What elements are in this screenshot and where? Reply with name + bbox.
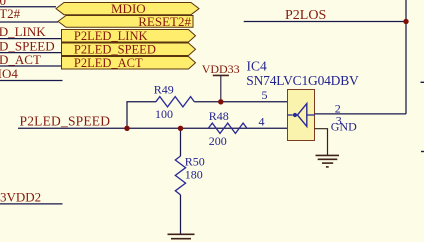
- svg-text:R49: R49: [154, 83, 174, 97]
- svg-text:4: 4: [259, 115, 265, 129]
- svg-text:P2LOS: P2LOS: [285, 8, 326, 23]
- svg-text:P2LED_ACT: P2LED_ACT: [0, 52, 41, 67]
- wire row2 to RESET2# port: [0, 21, 58, 23]
- wire P2LOS horizontal: [244, 21, 406, 23]
- svg-text:P2LED_SPEED: P2LED_SPEED: [20, 114, 111, 129]
- inverter bubble: [293, 113, 297, 117]
- wire row3 to P2LED LINK port: [0, 38, 62, 40]
- inverter input stub: [287, 114, 292, 116]
- wire row6 (bare stub): [0, 80, 63, 82]
- op-amp / inverter IC4 body: [288, 90, 315, 141]
- wire row1 to MDIO port: [0, 6, 56, 8]
- wire vertical corner x=127: [126, 102, 128, 129]
- inverter output stub: [307, 114, 315, 116]
- svg-text:33VDD2: 33VDD2: [0, 189, 41, 204]
- svg-text:180: 180: [185, 168, 203, 182]
- svg-text:100: 100: [155, 107, 173, 121]
- junction corner x=127: [124, 126, 129, 131]
- svg-text:R50: R50: [185, 155, 205, 169]
- wire lower horizontal (P2LED SPEED net): [18, 127, 287, 129]
- svg-text:P2LED_ACT: P2LED_ACT: [74, 56, 143, 70]
- svg-text:IC4: IC4: [247, 59, 268, 74]
- junction VDD33/pin5 net: [218, 99, 223, 104]
- resistor R48: [208, 123, 247, 133]
- svg-text:200: 200: [209, 134, 227, 148]
- port MDIO: [56, 3, 199, 15]
- svg-text:VDD33: VDD33: [202, 62, 240, 76]
- svg-text:RESET2#: RESET2#: [138, 14, 191, 29]
- port P2LED_ACT: [62, 57, 196, 70]
- wire 33VDD2 stub: [0, 203, 63, 205]
- wire stub right edge upper: [421, 81, 424, 83]
- svg-text:RESET2#: RESET2#: [0, 6, 21, 21]
- ground symbol at IC: [316, 155, 340, 167]
- wire P2LOS vertical: [405, 0, 407, 114]
- wire row5 to P2LED ACT port: [0, 65, 62, 67]
- svg-text:5: 5: [262, 88, 268, 102]
- svg-text:R48: R48: [209, 109, 229, 123]
- junction P2LOS: [403, 19, 408, 24]
- wire pin3 to ground: [315, 129, 328, 156]
- svg-text:P2LED_SPEED: P2LED_SPEED: [74, 42, 156, 56]
- wire stub right edge lower: [421, 151, 424, 153]
- ground symbol bottom: [168, 234, 195, 238]
- wire R50 to ground: [180, 195, 182, 235]
- port P2LED_SPEED: [62, 43, 196, 56]
- junction R50 branch: [178, 126, 183, 131]
- port RESET2#: [58, 16, 193, 28]
- wire pin2 horizontal: [315, 113, 407, 115]
- inverter triangle: [297, 104, 306, 127]
- svg-text:P2LED_LINK: P2LED_LINK: [0, 24, 46, 39]
- resistor R49: [156, 97, 195, 107]
- wire upper horizontal to pin 5: [126, 101, 156, 103]
- svg-text:SN74LVC1G04DBV: SN74LVC1G04DBV: [246, 73, 359, 88]
- wire R50 branch vertical: [180, 128, 182, 156]
- svg-text:GPIO4: GPIO4: [0, 66, 18, 81]
- wire row4 to P2LED SPEED port: [0, 52, 62, 54]
- svg-text:P2LED_LINK: P2LED_LINK: [74, 29, 148, 43]
- resistor R50: [175, 156, 185, 195]
- svg-text:GND: GND: [331, 120, 357, 134]
- port P2LED_LINK: [62, 30, 196, 43]
